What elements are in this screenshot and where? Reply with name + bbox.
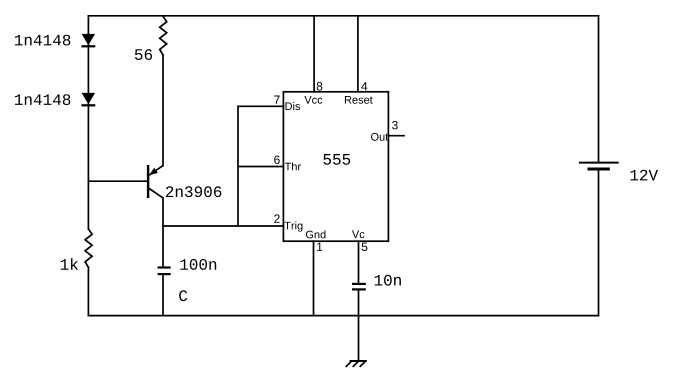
wire pin 5 to ground (358, 291, 360, 361)
pin 2 number (274, 214, 279, 222)
wire emitter feed (162, 55, 164, 166)
capacitor C2 10n (353, 284, 365, 290)
wire base (88, 180, 147, 182)
wire trig horizontal (163, 225, 283, 227)
pin 3 label Out (371, 133, 388, 141)
pin 5 number (362, 243, 368, 251)
wire thr stub (238, 166, 283, 168)
wire top rail (88, 15, 598, 17)
wire collector upper (162, 198, 164, 266)
pin 7 label Dis (286, 102, 301, 110)
battery BT1 12V (580, 163, 618, 169)
pin 8 label Vcc (304, 96, 322, 104)
wire collector lower (162, 275, 164, 315)
pin 6 number (274, 156, 280, 164)
pin 1 number (317, 243, 322, 251)
wire right rail upper (598, 16, 600, 162)
transistor Q1 2n3906 (148, 166, 163, 198)
pin 7 number (274, 96, 279, 104)
resistor R1 56 (160, 16, 167, 55)
pin 5 Vc wire upper (358, 241, 360, 283)
wire right rail lower (598, 171, 600, 316)
pin 1 label Gnd (306, 230, 326, 238)
pin 6 label Thr (285, 162, 301, 170)
wire dis stub (238, 105, 283, 107)
pin 4 label Reset (345, 96, 373, 104)
pin 8 number (317, 82, 323, 90)
pin 3 number (392, 121, 398, 129)
wire dis-thr bus (237, 106, 239, 226)
pin 3 Out wire (388, 135, 404, 137)
resistor R2 1k (85, 229, 92, 267)
pin 4 Reset wire (357, 16, 359, 92)
IC U1 555 box (283, 92, 388, 241)
label C (179, 290, 187, 301)
pin 1 Gnd wire (313, 241, 315, 315)
pin 8 Vcc wire (313, 16, 315, 92)
wire left rail upper (87, 16, 89, 229)
wire bottom rail (88, 315, 598, 317)
wire left rail lower (87, 267, 89, 315)
diode D2 1n4148 (82, 93, 96, 105)
capacitor C1 100n (159, 268, 170, 275)
diode D1 1n4148 (82, 34, 96, 46)
ground (346, 361, 366, 366)
pin 2 label Trig (284, 221, 302, 231)
pin 5 label Vc (352, 230, 364, 238)
pin 4 number (361, 82, 367, 90)
